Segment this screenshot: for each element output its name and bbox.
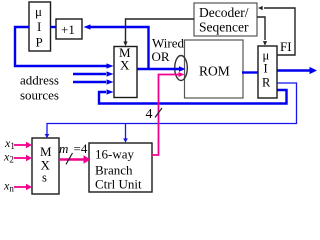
label Wired OR [152,36,185,65]
wire uIP output loop to MX [15,27,114,69]
wire uIR feedback to MX (thick) [99,89,287,103]
register uIP box [29,2,51,51]
wire ROM to uIR [242,71,258,73]
wire decoder to MX select [123,19,194,46]
svg-text:Branch: Branch [95,163,133,178]
incrementer +1 box [56,19,82,39]
wire MXs output to branch unit [59,155,91,163]
wire decoder to uIR load [257,17,267,46]
svg-text:=4: =4 [74,141,88,156]
wired-OR ellipse [175,56,188,81]
wire address source 1 into MX [73,71,114,76]
wire input x2 [14,155,32,161]
svg-text:FI: FI [280,39,292,54]
wire uIR main output [277,67,317,74]
svg-text:μ: μ [263,49,270,63]
svg-text:s: s [42,171,47,185]
svg-text:X: X [120,58,130,73]
svg-text:address: address [20,73,59,88]
svg-text:I: I [264,62,268,76]
svg-text:P: P [36,35,43,50]
bus width tick m=4 [59,141,88,164]
svg-text:I: I [37,19,41,34]
wire branch of feedback bus into branch unit [123,124,128,143]
svg-text:R: R [262,76,271,90]
svg-text:16-way: 16-way [95,147,134,162]
svg-text:OR: OR [152,49,170,64]
wire MX output to wired-OR [137,66,186,71]
wire uIP to +1 link [51,26,57,28]
svg-text:μ: μ [35,4,42,19]
svg-text:m: m [59,141,68,156]
wire address source 2 into MX [73,79,114,84]
wire FI feedback uIR to decoder [258,6,295,55]
multiplexer MX box [114,45,137,98]
svg-text:Seqencer: Seqencer [199,20,249,35]
wire ROM address tap into +1 [84,24,149,68]
svg-text:4: 4 [146,107,153,122]
16-way branch control unit box [89,143,152,192]
wire input xn [14,184,32,190]
svg-text:+1: +1 [61,22,75,37]
wire uIR feedback bus to MXs and branch unit (thin) [45,83,297,138]
label address sources [20,73,59,103]
svg-text:sources: sources [20,88,59,103]
svg-text:Decoder/: Decoder/ [199,5,249,20]
register uIR box [258,46,277,98]
wire branch unit output to wired-OR [152,72,185,155]
svg-text:ROM: ROM [199,64,230,79]
ROM box [185,40,244,98]
svg-text:Ctrl Unit: Ctrl Unit [95,177,142,192]
decoder/sequencer box [194,3,257,36]
multiplexer MXs box [32,138,59,194]
bus width tick 4 [146,107,163,122]
wire input x1 [14,142,32,148]
